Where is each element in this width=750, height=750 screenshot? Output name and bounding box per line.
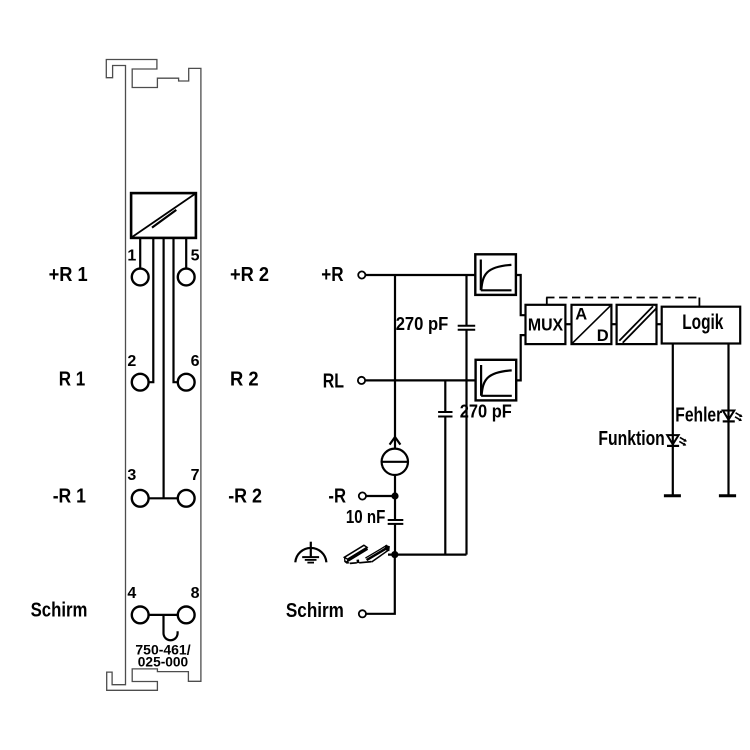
svg-text:025-000: 025-000 xyxy=(138,655,188,670)
svg-text:6: 6 xyxy=(191,353,200,370)
svg-text:10 nF: 10 nF xyxy=(346,506,385,527)
svg-text:1: 1 xyxy=(127,248,136,265)
svg-text:+R: +R xyxy=(321,264,344,286)
svg-text:R 1: R 1 xyxy=(59,368,86,390)
svg-text:-R 1: -R 1 xyxy=(53,486,86,508)
svg-text:7: 7 xyxy=(191,467,200,484)
svg-text:+R 2: +R 2 xyxy=(230,264,269,286)
svg-text:Schirm: Schirm xyxy=(286,600,344,622)
svg-text:D: D xyxy=(597,327,609,345)
svg-text:Schirm: Schirm xyxy=(31,600,88,622)
svg-text:270 pF: 270 pF xyxy=(396,313,449,334)
svg-text:-R 2: -R 2 xyxy=(228,486,262,508)
svg-text:2: 2 xyxy=(127,353,136,370)
svg-text:-R: -R xyxy=(328,485,346,507)
svg-text:RL: RL xyxy=(323,371,344,393)
svg-text:R 2: R 2 xyxy=(230,368,259,390)
svg-text:5: 5 xyxy=(191,248,200,265)
svg-text:Funktion: Funktion xyxy=(598,428,664,450)
svg-text:MUX: MUX xyxy=(528,314,564,334)
svg-text:4: 4 xyxy=(127,585,136,602)
svg-text:3: 3 xyxy=(127,467,136,484)
svg-text:A: A xyxy=(575,306,587,324)
svg-text:+R 1: +R 1 xyxy=(49,264,88,286)
svg-text:Logik: Logik xyxy=(682,311,723,334)
svg-text:8: 8 xyxy=(191,585,200,602)
svg-text:Fehler: Fehler xyxy=(675,405,722,427)
